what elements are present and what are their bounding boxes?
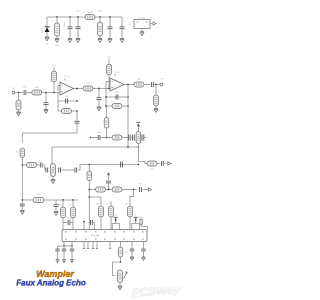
svg-text:100n: 100n: [97, 132, 101, 134]
svg-text:DC jack: DC jack: [138, 18, 146, 20]
svg-text:100R: 100R: [87, 12, 93, 14]
svg-text:47u: 47u: [124, 252, 127, 254]
svg-text:1N4001: 1N4001: [42, 26, 44, 34]
svg-text:Wampler: Wampler: [36, 269, 74, 279]
svg-text:100n: 100n: [64, 23, 66, 27]
svg-text:100n: 100n: [23, 86, 27, 88]
svg-text:1u: 1u: [115, 215, 117, 217]
svg-text:Faux Analog Echo: Faux Analog Echo: [16, 279, 86, 288]
svg-text:100n: 100n: [138, 184, 142, 186]
svg-text:1u: 1u: [135, 215, 137, 217]
svg-text:PT2399: PT2399: [91, 235, 100, 238]
svg-text:OUT: OUT: [160, 79, 165, 81]
svg-text:100n: 100n: [67, 218, 71, 220]
svg-text:100u: 100u: [55, 45, 59, 47]
